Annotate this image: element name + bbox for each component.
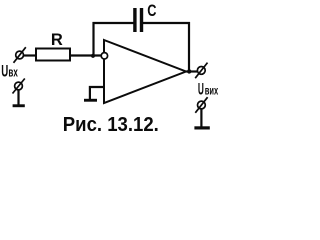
wire: feedback left vertical	[92, 22, 94, 56]
wire: lower input terminal stub	[17, 90, 19, 105]
terminal: output Uvyh	[195, 63, 207, 79]
wire: op-amp output to terminal	[186, 70, 197, 72]
wire: lower output terminal stub	[200, 109, 202, 126]
ground bar: lower-right terminal	[194, 126, 209, 129]
label Uvx (input voltage)	[1, 62, 18, 81]
label Uvyh (output voltage)	[198, 79, 218, 98]
node: junction of R, C and inverting input	[91, 54, 95, 58]
svg-text:Рис. 13.12.: Рис. 13.12.	[63, 114, 159, 136]
svg-text:U: U	[1, 62, 8, 81]
op-amp inverting input bubble	[101, 53, 107, 59]
op-amp U1 triangle	[104, 40, 186, 103]
wire: feedback top left segment	[93, 22, 135, 24]
svg-text:R: R	[51, 31, 63, 49]
wire: feedback top right segment	[142, 22, 190, 24]
svg-text:вих: вих	[205, 83, 219, 97]
capacitor C	[133, 8, 143, 32]
svg-text:вх: вх	[8, 65, 18, 80]
wire: input terminal to resistor	[24, 54, 36, 56]
svg-text:C: C	[147, 2, 156, 20]
ground bar: lower-left terminal	[13, 104, 25, 107]
ground (non-inverting input common)	[84, 99, 97, 102]
terminal: input common (lower left)	[13, 79, 25, 94]
wire: resistor to inverting input	[70, 54, 101, 56]
node: output junction with feedback	[187, 69, 191, 73]
svg-text:U: U	[198, 79, 204, 98]
wire: non-inverting input to ground	[90, 87, 104, 100]
terminal: input Uvx	[14, 47, 26, 63]
wire: feedback right vertical	[188, 22, 190, 72]
resistor R	[36, 49, 70, 61]
terminal: output common (lower right)	[195, 97, 207, 113]
